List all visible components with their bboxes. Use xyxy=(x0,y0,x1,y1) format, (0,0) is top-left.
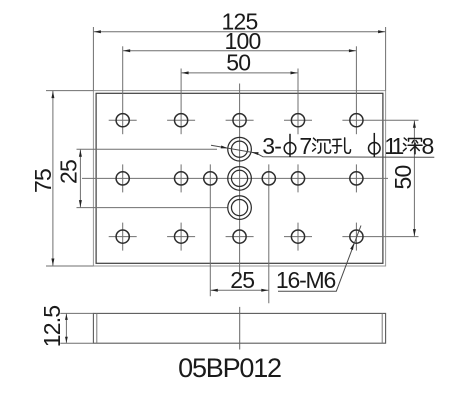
svg-text:16-M6: 16-M6 xyxy=(276,267,336,293)
dim 25 bottom arrows xyxy=(211,289,218,292)
counterbore hole 1 inner xyxy=(231,141,247,157)
counterbore hole 1 outer xyxy=(228,137,252,161)
dim 75 arrows xyxy=(51,91,54,98)
svg-text:1: 1 xyxy=(392,133,404,159)
dim 75 extension top xyxy=(46,90,93,92)
counterbore hole 3 inner xyxy=(231,200,247,216)
dim 125 line xyxy=(93,31,385,33)
extension line bottom counterbore (left 25 dim) xyxy=(77,207,229,209)
M6 hole col3 row1 xyxy=(233,114,246,127)
svg-text:12.5: 12.5 xyxy=(39,306,65,348)
hole crosshair horizontals col3 rows 1,3 xyxy=(226,119,254,121)
crosshair v col5 row3 xyxy=(355,223,357,251)
crosshair v col4 row2 xyxy=(297,164,299,192)
plate top view outline (outer edge) xyxy=(93,91,385,266)
svg-text:75: 75 xyxy=(30,169,56,193)
svg-text:25: 25 xyxy=(230,267,254,293)
crosshair h col5 row1 xyxy=(342,119,418,121)
M6 hole col4 row2 xyxy=(291,172,304,185)
middle row horizontal centerline xyxy=(82,177,388,179)
dim 50 right line xyxy=(413,120,415,236)
crosshair h col5 row3 xyxy=(342,236,418,238)
dim 25 left arrows xyxy=(79,150,82,157)
M6 hole col2 row2 xyxy=(175,172,188,185)
dim 125 arrows xyxy=(94,30,101,33)
M6 mid hole right xyxy=(262,172,275,185)
M6 hole col1 row2 xyxy=(116,172,129,185)
dim 12.5 arrows xyxy=(65,314,68,320)
dim 50 top line xyxy=(181,72,298,74)
dim 12.5 extension bottom xyxy=(60,342,93,344)
M6 hole col5 row2 xyxy=(350,172,363,185)
extension line col1 (100 dim) xyxy=(122,46,124,134)
svg-text:7: 7 xyxy=(299,133,311,159)
crosshair h col2 row3 xyxy=(167,236,195,238)
M6 hole col2 row3 xyxy=(175,230,188,243)
M6 hole col5 row3 xyxy=(350,230,363,243)
dim 50 top arrows xyxy=(182,71,189,74)
dim 75 extension bottom xyxy=(46,265,93,267)
dim 12.5 extension top xyxy=(60,312,93,314)
leader line 16-M6 xyxy=(278,226,361,292)
counterbore hole 2 outer xyxy=(228,167,252,191)
extension line col2 (50 dim) xyxy=(180,69,182,135)
crosshair h col4 row3 xyxy=(284,236,312,238)
annotation phi symbol 1 xyxy=(284,134,296,157)
dim 25 left line xyxy=(79,149,81,207)
M6 hole col2 row1 xyxy=(175,114,188,127)
plate top view chamfer (inner edge) xyxy=(96,93,383,263)
M6 hole col4 row3 xyxy=(291,230,304,243)
M6 hole col1 row1 xyxy=(116,114,129,127)
annotation phi symbol 2 xyxy=(369,133,381,157)
annotation CJK glyph kong (hole) xyxy=(332,138,350,153)
counterbore hole 2 inner xyxy=(231,170,247,186)
side view centerline xyxy=(239,307,241,350)
side view chamfer left xyxy=(96,313,98,343)
M6 hole col4 row1 xyxy=(291,114,304,127)
svg-text:50: 50 xyxy=(390,166,416,190)
M6 hole col1 row3 xyxy=(116,230,129,243)
extension line top counterbore (left 25 dim) xyxy=(77,148,218,150)
dim 125 extension left xyxy=(92,27,94,91)
side view outline xyxy=(93,313,385,343)
svg-text:50: 50 xyxy=(226,49,250,75)
crosshair v col4 row3 xyxy=(297,223,299,251)
crosshair h col2 row1 xyxy=(167,119,195,121)
crosshair h col4 row1 xyxy=(284,119,312,121)
svg-text:8: 8 xyxy=(422,133,434,159)
leader arrow 16-M6 xyxy=(350,243,354,250)
crosshair v col1 row3 xyxy=(122,223,124,251)
M6 mid hole left xyxy=(204,172,217,185)
M6 hole col3 row3 xyxy=(233,230,246,243)
annotation CJK glyph shen (depth) xyxy=(403,138,422,154)
dim 125 extension right xyxy=(385,27,387,91)
dim 50 right arrows xyxy=(413,121,416,128)
crosshair v col2 row3 xyxy=(180,223,182,251)
counterbore hole 3 outer xyxy=(228,196,252,220)
extension line mid-hole right (bottom 25 dim) xyxy=(268,164,270,303)
crosshair v col1 row2 xyxy=(122,164,124,192)
svg-text:05BP012: 05BP012 xyxy=(178,353,281,383)
crosshair h col1 row3 xyxy=(109,236,137,238)
crosshair v col2 row2 xyxy=(180,164,182,192)
M6 hole col5 row1 xyxy=(350,114,363,127)
side view chamfer right xyxy=(381,313,383,343)
dim 100 line xyxy=(123,50,357,52)
extension line col4 (50 dim) xyxy=(297,69,299,135)
dim 12.5 line xyxy=(65,313,67,343)
svg-text:3-: 3- xyxy=(262,133,281,159)
extension line col5 (100 dim) xyxy=(355,46,357,134)
center column vertical centerline xyxy=(239,84,241,276)
leader arrows on counterbore xyxy=(221,146,228,149)
dim 100 arrows xyxy=(123,49,130,52)
dim 75 line xyxy=(52,91,54,266)
leader line counterbore callout xyxy=(211,145,434,157)
crosshair h col1 row1 xyxy=(109,119,137,121)
annotation CJK glyph chen (sink) xyxy=(313,138,331,153)
crosshair v col5 row2 xyxy=(355,164,357,192)
svg-text:25: 25 xyxy=(56,160,82,184)
dim 25 bottom line xyxy=(210,289,268,291)
extension line mid-hole left (bottom 25 dim) xyxy=(209,164,211,296)
